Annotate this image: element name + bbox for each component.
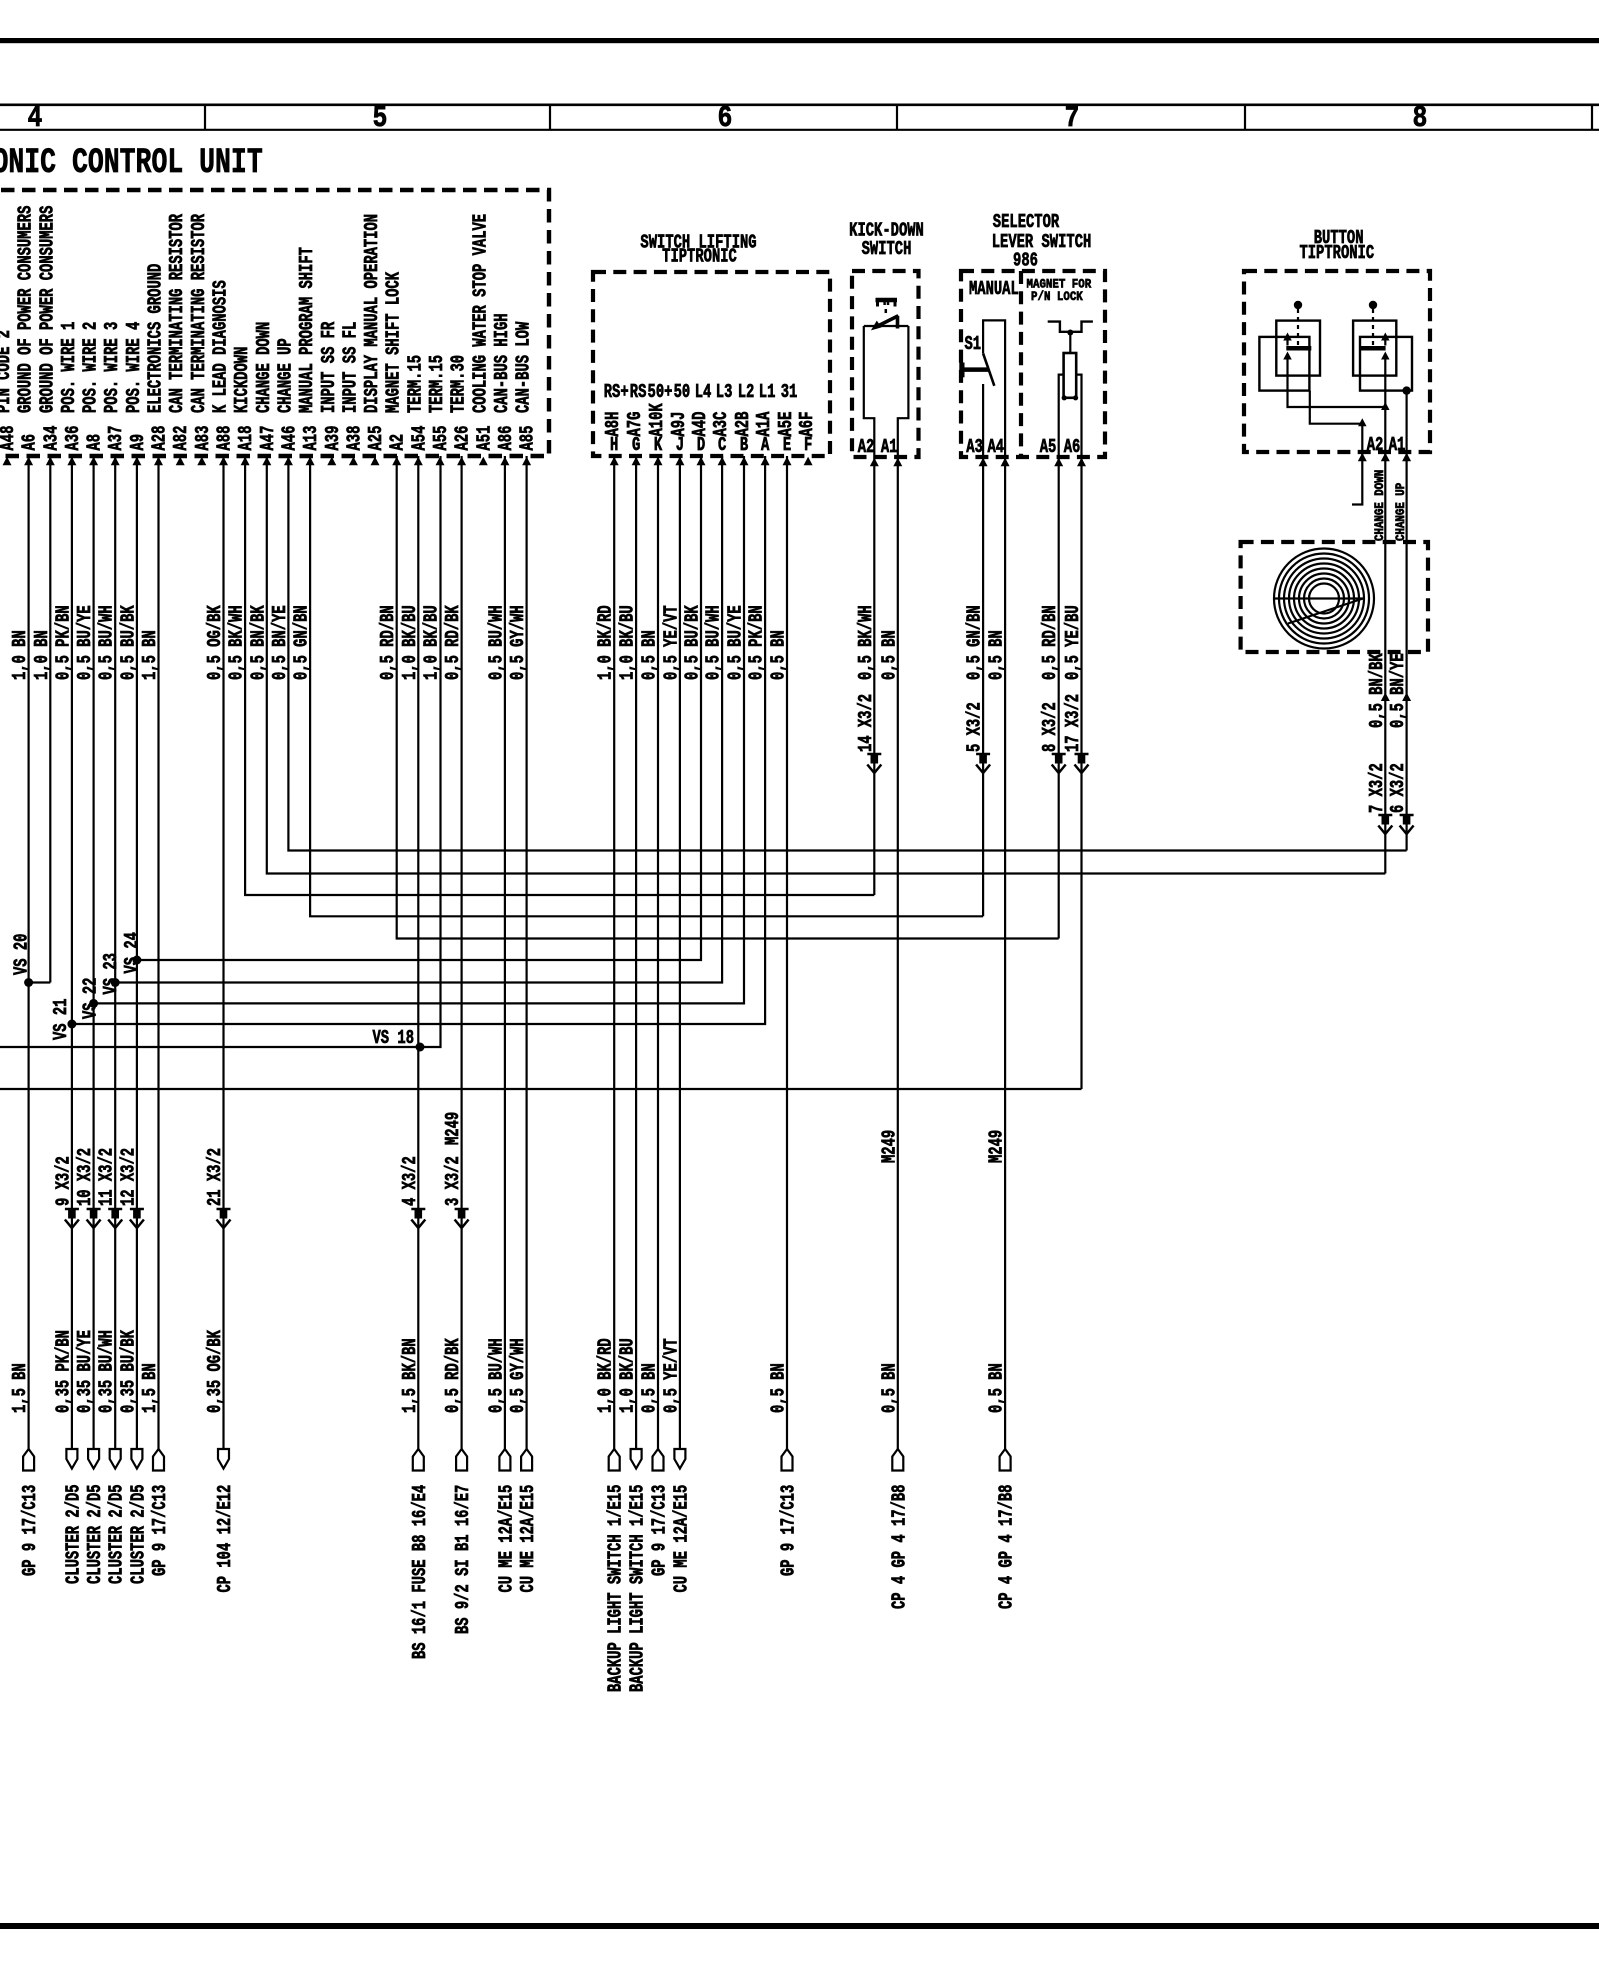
svg-text:VS 21: VS 21 bbox=[50, 998, 72, 1040]
svg-text:C: C bbox=[718, 434, 726, 456]
button S5 left button wire to A2 node bbox=[1288, 360, 1386, 408]
svg-text:L4: L4 bbox=[695, 381, 712, 403]
wire VS18 bus to left edge bbox=[0, 456, 441, 1047]
svg-text:8: 8 bbox=[1413, 102, 1428, 136]
svg-text:21 X3/2: 21 X3/2 bbox=[204, 1148, 226, 1206]
selector switch S1 wire to A3 bbox=[982, 384, 984, 457]
control unit pin A26 (TERM.30) bbox=[448, 355, 474, 465]
svg-text:3 X3/2: 3 X3/2 bbox=[442, 1156, 464, 1206]
svg-text:1,5 BN: 1,5 BN bbox=[9, 1363, 31, 1413]
svg-text:A51: A51 bbox=[473, 426, 495, 451]
control unit pin A9 (POS. WIRE 4) bbox=[123, 322, 149, 466]
svg-text:L2: L2 bbox=[738, 381, 755, 403]
svg-text:4: 4 bbox=[28, 102, 43, 136]
svg-text:A10K: A10K bbox=[646, 403, 668, 436]
svg-text:A2: A2 bbox=[1367, 434, 1384, 456]
svg-text:A25: A25 bbox=[365, 426, 387, 451]
svg-text:MANUAL: MANUAL bbox=[969, 278, 1019, 300]
wire SL G 1,0 BK/BU to backup light switch bbox=[635, 456, 637, 1449]
switch lifting pin G (A7G) bbox=[624, 381, 646, 465]
svg-text:CP 4 GP 4 17/B8: CP 4 GP 4 17/B8 bbox=[996, 1485, 1018, 1609]
svg-text:VS 24: VS 24 bbox=[121, 932, 143, 974]
node VS 22 bbox=[89, 999, 98, 1008]
svg-text:0,35 OG/BK: 0,35 OG/BK bbox=[204, 1330, 226, 1413]
svg-text:A6F: A6F bbox=[796, 412, 818, 437]
selector pin A5 bbox=[1054, 458, 1063, 467]
svg-text:A54: A54 bbox=[408, 426, 430, 451]
svg-text:A82: A82 bbox=[170, 426, 192, 451]
svg-text:BACKUP LIGHT SWITCH 1/E15: BACKUP LIGHT SWITCH 1/E15 bbox=[627, 1485, 649, 1692]
control unit pin A13 (MANUAL PROGRAM SHIFT) bbox=[296, 247, 322, 465]
wire SL J 0,5 YE/VT to CU ME bbox=[679, 456, 681, 1449]
svg-text:0,5 BN: 0,5 BN bbox=[986, 1363, 1008, 1413]
control unit pin A83 (CAN TERMINATING RESISTOR) bbox=[188, 214, 214, 465]
svg-text:RS: RS bbox=[630, 381, 647, 403]
wire A28 electronics ground 1,5 BN to GP 9 bbox=[157, 456, 159, 1449]
svg-text:A83: A83 bbox=[192, 426, 214, 451]
svg-text:50+: 50+ bbox=[648, 381, 673, 403]
svg-text:CAN-BUS HIGH: CAN-BUS HIGH bbox=[491, 313, 513, 413]
svg-text:986: 986 bbox=[1013, 249, 1038, 271]
svg-text:CLUSTER 2/D5: CLUSTER 2/D5 bbox=[62, 1484, 84, 1584]
svg-text:1,0 BK/BU: 1,0 BK/BU bbox=[617, 605, 639, 680]
svg-text:A39: A39 bbox=[322, 426, 344, 451]
svg-text:BACKUP LIGHT SWITCH 1/E15: BACKUP LIGHT SWITCH 1/E15 bbox=[605, 1485, 627, 1692]
wire A26 term 30 0,5 RD/BK to BS 9/2 bbox=[461, 456, 463, 1449]
svg-text:A2B: A2B bbox=[732, 412, 754, 437]
control unit pin A85 (CAN-BUS LOW) bbox=[513, 322, 539, 466]
svg-text:A34: A34 bbox=[40, 426, 62, 451]
switch lifting pin F (A6F) bbox=[796, 412, 818, 466]
svg-text:A9: A9 bbox=[127, 434, 149, 451]
control unit pin A37 (POS. WIRE 3) bbox=[101, 322, 127, 466]
svg-text:1,0 BK/BU: 1,0 BK/BU bbox=[617, 1338, 639, 1413]
svg-text:A7G: A7G bbox=[624, 412, 646, 437]
wire A13 manual program shift 0,5 GN/BN bus H4 bbox=[310, 456, 983, 916]
svg-text:VS 18: VS 18 bbox=[373, 1027, 415, 1049]
switch lifting pin C (A3C) bbox=[710, 381, 732, 465]
control unit pin A36 (POS. WIRE 1) bbox=[58, 322, 84, 466]
svg-text:INPUT SS FR: INPUT SS FR bbox=[318, 322, 340, 413]
svg-text:BS 9/2 SI B1 16/E7: BS 9/2 SI B1 16/E7 bbox=[452, 1485, 474, 1634]
svg-text:RS+: RS+ bbox=[604, 381, 629, 403]
button stub pin arrow bbox=[1358, 453, 1367, 462]
svg-text:5: 5 bbox=[373, 102, 388, 136]
svg-text:ELECTRONICS GROUND: ELECTRONICS GROUND bbox=[144, 264, 166, 413]
wire A8 0,5 BU/YE / 0,35 BU/YE to CLUSTER bbox=[92, 456, 94, 1449]
wire A86 CAN-BUS high 0,5 BU/WH to CU ME bbox=[504, 456, 506, 1449]
control unit pin A34 (GROUND OF POWER CONSUMERS) bbox=[36, 206, 62, 466]
svg-text:12 X3/2: 12 X3/2 bbox=[117, 1148, 139, 1206]
svg-text:0,35 PK/BN: 0,35 PK/BN bbox=[52, 1330, 74, 1413]
svg-text:0,5 BN/BK: 0,5 BN/BK bbox=[247, 605, 269, 680]
svg-text:0,5 BU/BK: 0,5 BU/BK bbox=[117, 605, 139, 680]
svg-text:A6: A6 bbox=[19, 434, 41, 451]
button pin A2 label bbox=[1381, 453, 1390, 462]
svg-text:A37: A37 bbox=[105, 426, 127, 451]
svg-text:GP 9 17/C13: GP 9 17/C13 bbox=[777, 1485, 799, 1576]
bus H9 A36 to switch lifting A bbox=[72, 456, 765, 1024]
control unit pin A8 (POS. WIRE 2) bbox=[80, 322, 106, 466]
wire A47 change down 0,5 BN/BK bus H2 bbox=[267, 456, 1386, 874]
kick-down switch contact bracket bbox=[876, 298, 898, 303]
svg-text:10 X3/2: 10 X3/2 bbox=[74, 1148, 96, 1206]
svg-text:0,5 YE/VT: 0,5 YE/VT bbox=[660, 1338, 682, 1413]
svg-text:GP 9 17/C13: GP 9 17/C13 bbox=[19, 1485, 41, 1576]
svg-text:1,0 BK/RD: 1,0 BK/RD bbox=[595, 605, 617, 680]
gong coil concentric rings bbox=[1274, 549, 1374, 649]
svg-text:5 X3/2: 5 X3/2 bbox=[964, 702, 986, 752]
svg-text:0,5 BN: 0,5 BN bbox=[878, 1363, 900, 1413]
svg-text:A36: A36 bbox=[62, 426, 84, 451]
control unit U1 dashed box bbox=[0, 190, 549, 456]
svg-text:A8H: A8H bbox=[602, 412, 624, 437]
svg-text:A1: A1 bbox=[881, 436, 898, 458]
selector pin A3 bbox=[979, 458, 988, 467]
node VS 23 bbox=[111, 978, 120, 987]
svg-text:0,5 BK/WH: 0,5 BK/WH bbox=[855, 605, 877, 680]
svg-text:31: 31 bbox=[781, 381, 798, 403]
button S5 left pushbutton outer square bbox=[1276, 321, 1320, 376]
control unit pin A48 (PIN CODE 2) bbox=[0, 330, 19, 465]
wire BT A2 change down 0,5 BN/BK through 7 X3/2 bbox=[1384, 452, 1386, 874]
svg-text:TERM.15: TERM.15 bbox=[404, 355, 426, 413]
svg-text:POS. WIRE 4: POS. WIRE 4 bbox=[123, 322, 145, 413]
selector switch S1 contact frame bbox=[983, 320, 1005, 457]
top border bar bbox=[0, 38, 1599, 43]
wire SE A3 0,5 GN/BN through 5 X3/2 bbox=[982, 457, 984, 916]
svg-text:GP 9 17/C13: GP 9 17/C13 bbox=[648, 1485, 670, 1576]
selector magnet tube wires to A5 A6 bbox=[1059, 375, 1064, 457]
control unit pin A18 (KICKDOWN) bbox=[231, 347, 257, 466]
button pin A1 label bbox=[1402, 453, 1411, 462]
svg-text:9 X3/2: 9 X3/2 bbox=[52, 1156, 74, 1206]
svg-text:TERM.30: TERM.30 bbox=[448, 355, 470, 413]
button S5 left pushbutton knob bbox=[1294, 301, 1302, 309]
svg-text:A: A bbox=[761, 434, 769, 456]
svg-text:TERM.15: TERM.15 bbox=[426, 355, 448, 413]
button S5 right contact arrows bbox=[1381, 333, 1390, 341]
svg-text:A46: A46 bbox=[278, 426, 300, 451]
switch lifting pin B (A2B) bbox=[732, 381, 754, 465]
svg-text:A3C: A3C bbox=[710, 412, 732, 437]
selector switch S1 common bar bbox=[961, 367, 989, 372]
svg-text:CU ME 12A/E15: CU ME 12A/E15 bbox=[495, 1485, 517, 1593]
svg-text:M249: M249 bbox=[986, 1130, 1008, 1163]
wire A88 K lead 0,5 OG/BK to CP 104 bbox=[222, 456, 224, 1449]
svg-text:SWITCH: SWITCH bbox=[862, 238, 912, 260]
node VS 18 bbox=[416, 1043, 425, 1052]
svg-text:GP 9 17/C13: GP 9 17/C13 bbox=[149, 1485, 171, 1576]
button S5 left contact arrows bbox=[1283, 333, 1292, 341]
svg-text:A48: A48 bbox=[0, 426, 19, 451]
svg-text:KICKDOWN: KICKDOWN bbox=[231, 347, 253, 413]
button S5 wire to pin A1 bbox=[1405, 391, 1407, 452]
wire A37 0,5 BU/WH / 0,35 BU/WH to CLUSTER bbox=[114, 456, 116, 1449]
svg-text:4 X3/2: 4 X3/2 bbox=[399, 1156, 421, 1206]
svg-text:A55: A55 bbox=[430, 426, 452, 451]
svg-text:A85: A85 bbox=[517, 426, 539, 451]
svg-text:S1: S1 bbox=[965, 333, 982, 355]
svg-text:1,0 BN: 1,0 BN bbox=[9, 630, 31, 680]
svg-text:A38: A38 bbox=[343, 426, 365, 451]
svg-text:POS. WIRE 3: POS. WIRE 3 bbox=[101, 322, 123, 413]
svg-text:A18: A18 bbox=[235, 426, 257, 451]
kick-down switch S3 dashed box bbox=[852, 271, 919, 457]
kick-down switch plunger outline bbox=[864, 326, 875, 457]
selector magnet for P/N lock bracket bbox=[1048, 322, 1093, 332]
svg-text:0,5 OG/BK: 0,5 OG/BK bbox=[204, 605, 226, 680]
svg-text:CHANGE UP: CHANGE UP bbox=[274, 338, 296, 413]
svg-text:0,5 BN: 0,5 BN bbox=[986, 630, 1008, 680]
control unit pin A88 (K LEAD DIAGNOSIS) bbox=[209, 280, 235, 465]
wire A9 0,5 BU/BK / 0,35 BU/BK to CLUSTER bbox=[136, 456, 138, 1449]
control unit pin A28 (ELECTRONICS GROUND) bbox=[144, 264, 170, 466]
svg-text:INPUT SS FL: INPUT SS FL bbox=[339, 322, 361, 413]
svg-text:0,5 BU/WH: 0,5 BU/WH bbox=[703, 605, 725, 680]
button S5 left square wire to stub bbox=[1310, 391, 1363, 424]
svg-text:MAGNET SHIFT LOCK: MAGNET SHIFT LOCK bbox=[383, 272, 405, 413]
switch lifting pin J (A9J) bbox=[668, 381, 690, 465]
selector pin A4 bbox=[1001, 458, 1010, 467]
svg-text:A86: A86 bbox=[495, 426, 517, 451]
svg-text:VS 23: VS 23 bbox=[100, 953, 122, 995]
wire SL H 1,0 BK/RD to backup light switch bbox=[613, 456, 615, 1449]
svg-text:0,5 GY/WH: 0,5 GY/WH bbox=[507, 1338, 529, 1413]
svg-text:M249: M249 bbox=[878, 1130, 900, 1163]
svg-text:0,5 BK/WH: 0,5 BK/WH bbox=[226, 605, 248, 680]
button S5 left pushbutton offset square bbox=[1259, 337, 1309, 391]
wire A6 ground 1,0 BN / 1,5 BN to GP 9 bbox=[28, 456, 30, 1449]
svg-text:L3: L3 bbox=[716, 381, 733, 403]
button S5 right contact bar bbox=[1360, 346, 1386, 351]
svg-text:CAN TERMINATING RESISTOR: CAN TERMINATING RESISTOR bbox=[166, 214, 188, 413]
svg-text:0,5 BN: 0,5 BN bbox=[767, 630, 789, 680]
button S5 junction on right square bbox=[1402, 386, 1410, 394]
selector magnet solenoid coil bbox=[1064, 353, 1077, 398]
control unit pin A82 (CAN TERMINATING RESISTOR) bbox=[166, 214, 192, 465]
svg-text:COOLING WATER STOP VALVE: COOLING WATER STOP VALVE bbox=[469, 214, 491, 413]
wire A2 magnet shift lock 0,5 RD/BN bus H5 bbox=[397, 456, 1059, 939]
gong diameter line bbox=[1274, 597, 1363, 599]
svg-text:1,5 BN: 1,5 BN bbox=[139, 630, 161, 680]
control unit pin A46 (CHANGE UP) bbox=[274, 338, 300, 465]
svg-text:CP 4 GP 4 17/B8: CP 4 GP 4 17/B8 bbox=[888, 1485, 910, 1609]
selector magnet stem bbox=[1069, 332, 1071, 354]
gong tiptronic dashed box bbox=[1241, 542, 1428, 652]
svg-text:VS 22: VS 22 bbox=[80, 978, 102, 1019]
selector switch internal divider bbox=[1019, 271, 1023, 457]
svg-text:CLUSTER 2/D5: CLUSTER 2/D5 bbox=[106, 1484, 128, 1584]
svg-text:0,5 BU/BK: 0,5 BU/BK bbox=[681, 605, 703, 680]
node VS 21 bbox=[67, 1020, 76, 1029]
svg-text:A2: A2 bbox=[387, 434, 409, 451]
wire BT stub below box bbox=[1352, 452, 1362, 505]
svg-text:A4D: A4D bbox=[689, 412, 711, 437]
switch lifting pin K (A10K) bbox=[646, 381, 672, 465]
svg-text:P/N LOCK: P/N LOCK bbox=[1031, 289, 1084, 304]
svg-text:A5E: A5E bbox=[775, 412, 797, 437]
svg-text:8 X3/2: 8 X3/2 bbox=[1039, 702, 1061, 752]
kick-down pin A1 bbox=[893, 458, 902, 467]
control unit pin A47 (CHANGE DOWN) bbox=[253, 322, 279, 466]
svg-text:A3: A3 bbox=[966, 436, 983, 458]
svg-text:A2: A2 bbox=[858, 436, 875, 458]
svg-text:CAN-BUS LOW: CAN-BUS LOW bbox=[513, 322, 535, 413]
svg-text:CP 104 12/E12: CP 104 12/E12 bbox=[214, 1485, 236, 1593]
svg-text:0,5 BN: 0,5 BN bbox=[878, 630, 900, 680]
wire A18 kickdown 0,5 BK/WH bus H3 bbox=[245, 456, 874, 895]
switch lifting tiptronic S2 dashed box bbox=[593, 272, 830, 456]
svg-text:0,5 RD/BN: 0,5 RD/BN bbox=[377, 605, 399, 680]
svg-text:CHANGE DOWN: CHANGE DOWN bbox=[253, 322, 275, 413]
svg-text:0,5 BN: 0,5 BN bbox=[767, 1363, 789, 1413]
svg-text:CU ME 12A/E15: CU ME 12A/E15 bbox=[670, 1485, 692, 1593]
svg-text:SELECTOR: SELECTOR bbox=[993, 211, 1059, 233]
svg-text:1,5 BN: 1,5 BN bbox=[139, 1363, 161, 1413]
svg-text:J: J bbox=[676, 434, 684, 456]
wire SE A6 0,5 YE/BU through 17 X3/2 bbox=[1080, 457, 1082, 1089]
svg-text:MANUAL PROGRAM SHIFT: MANUAL PROGRAM SHIFT bbox=[296, 247, 318, 413]
switch lifting pin A (A1A) bbox=[753, 381, 775, 465]
control unit pin A25 (DISPLAY MANUAL OPERATION) bbox=[361, 214, 387, 465]
svg-text:0,5 BU/YE: 0,5 BU/YE bbox=[74, 605, 96, 680]
wire SL E 0,5 BN to GP 9 bbox=[786, 456, 788, 1449]
svg-text:K: K bbox=[654, 434, 662, 456]
svg-text:0,5 YE/VT: 0,5 YE/VT bbox=[660, 605, 682, 680]
gong striker diagonal bbox=[1288, 599, 1363, 624]
control unit pin A38 (INPUT SS FL) bbox=[339, 322, 365, 466]
svg-text:B: B bbox=[740, 434, 748, 456]
svg-text:0,5 GN/BN: 0,5 GN/BN bbox=[291, 605, 313, 680]
svg-text:17 X3/2: 17 X3/2 bbox=[1062, 694, 1084, 752]
control unit pin A54 (TERM.15) bbox=[404, 355, 430, 465]
svg-text:GROUND OF POWER CONSUMERS: GROUND OF POWER CONSUMERS bbox=[36, 206, 58, 413]
svg-text:7 X3/2: 7 X3/2 bbox=[1366, 763, 1388, 813]
bus H6 A9 to switch lifting D bbox=[137, 456, 701, 960]
svg-text:GROUND OF POWER CONSUMERS: GROUND OF POWER CONSUMERS bbox=[15, 206, 37, 413]
svg-text:0,5 RD/BK: 0,5 RD/BK bbox=[442, 1338, 464, 1413]
node VS 24 bbox=[132, 956, 141, 965]
svg-text:A1A: A1A bbox=[753, 412, 775, 437]
svg-text:POS. WIRE 1: POS. WIRE 1 bbox=[58, 322, 80, 413]
svg-text:CAN TERMINATING RESISTOR: CAN TERMINATING RESISTOR bbox=[188, 214, 210, 413]
button S5 right button wire to pin A2 bbox=[1384, 360, 1386, 453]
control unit pin A51 (COOLING WATER STOP VALVE) bbox=[469, 214, 495, 465]
svg-text:7: 7 bbox=[1065, 102, 1080, 136]
svg-text:1,0 BN: 1,0 BN bbox=[31, 630, 53, 680]
svg-text:1,0 BK/BU: 1,0 BK/BU bbox=[420, 605, 442, 680]
svg-text:M249: M249 bbox=[442, 1112, 464, 1145]
selector switch S1 arm bbox=[983, 353, 994, 385]
svg-text:A6: A6 bbox=[1064, 436, 1081, 458]
svg-text:0,5 RD/BK: 0,5 RD/BK bbox=[442, 605, 464, 680]
node VS 20 bbox=[24, 978, 33, 987]
switch lifting pin H (A8H) bbox=[602, 381, 628, 465]
switch lifting pin E (A5E) bbox=[775, 381, 797, 465]
button S5 right pushbutton knob bbox=[1369, 301, 1377, 309]
svg-text:11 X3/2: 11 X3/2 bbox=[96, 1148, 118, 1206]
svg-text:0,5 BN: 0,5 BN bbox=[638, 1363, 660, 1413]
bottom border bar bbox=[0, 1923, 1599, 1929]
wire A54 term 15 1,0 BK/BU through VS 18 to fuse bbox=[417, 456, 419, 1449]
wire A34 ground 1,0 BN to VS 20 bbox=[49, 456, 51, 983]
svg-text:A28: A28 bbox=[148, 426, 170, 451]
svg-text:DISPLAY MANUAL OPERATION: DISPLAY MANUAL OPERATION bbox=[361, 214, 383, 413]
svg-text:A8: A8 bbox=[84, 434, 106, 451]
wire SE A4 0,5 BN to CP 4 GP 4 bbox=[1004, 457, 1006, 1449]
svg-text:0,5 YE/BU: 0,5 YE/BU bbox=[1062, 605, 1084, 680]
wire VS20 link bbox=[29, 981, 51, 983]
svg-text:0,5 BN/BK: 0,5 BN/BK bbox=[1366, 653, 1388, 728]
switch lifting pin D (A4D) bbox=[689, 381, 711, 465]
kick-down switch fixed contact bbox=[896, 316, 900, 329]
svg-text:K LEAD DIAGNOSIS: K LEAD DIAGNOSIS bbox=[209, 280, 231, 413]
wire BT A1 change up 0,5 BN/YE through 6 X3/2 bbox=[1405, 452, 1407, 851]
svg-text:0,35 BU/BK: 0,35 BU/BK bbox=[117, 1330, 139, 1413]
bus H8 A8 to switch lifting B bbox=[94, 456, 744, 1003]
svg-text:CLUSTER 2/D5: CLUSTER 2/D5 bbox=[127, 1484, 149, 1584]
selector pin A6 bbox=[1077, 458, 1086, 467]
svg-text:E: E bbox=[783, 434, 791, 456]
selector lever switch S4 dashed box bbox=[961, 271, 1105, 457]
svg-text:L1: L1 bbox=[759, 381, 776, 403]
button S5 right pushbutton offset square bbox=[1360, 337, 1412, 391]
kick-down switch actuator dashed stem bbox=[885, 309, 888, 317]
kick-down pin A2 bbox=[870, 458, 879, 467]
svg-text:F: F bbox=[804, 434, 812, 456]
svg-text:CLUSTER 2/D5: CLUSTER 2/D5 bbox=[84, 1484, 106, 1584]
svg-text:CHANGE UP: CHANGE UP bbox=[1393, 483, 1408, 541]
bus H7 A37 to switch lifting C bbox=[115, 456, 722, 983]
svg-text:PIN CODE 2: PIN CODE 2 bbox=[0, 330, 15, 413]
control unit pin A39 (INPUT SS FR) bbox=[318, 322, 344, 466]
svg-text:POS. WIRE 2: POS. WIRE 2 bbox=[80, 322, 102, 413]
svg-text:LEVER SWITCH: LEVER SWITCH bbox=[992, 231, 1092, 253]
svg-text:0,5 BU/WH: 0,5 BU/WH bbox=[96, 605, 118, 680]
svg-text:CU ME 12A/E15: CU ME 12A/E15 bbox=[517, 1485, 539, 1593]
svg-text:G: G bbox=[632, 434, 640, 456]
svg-text:0,35 BU/YE: 0,35 BU/YE bbox=[74, 1330, 96, 1413]
control unit pin A6 (GROUND OF POWER CONSUMERS) bbox=[15, 206, 41, 466]
svg-text:1,5 BK/BN: 1,5 BK/BN bbox=[399, 1338, 421, 1413]
wire A36 0,5 PK/BN / 0,35 PK/BN to CLUSTER bbox=[71, 456, 73, 1449]
svg-text:1,0 BK/RD: 1,0 BK/RD bbox=[595, 1338, 617, 1413]
svg-text:A9J: A9J bbox=[668, 412, 690, 437]
svg-text:A88: A88 bbox=[213, 426, 235, 451]
svg-text:H: H bbox=[610, 434, 618, 456]
header band bbox=[0, 104, 1599, 107]
svg-text:50: 50 bbox=[674, 381, 691, 403]
svg-text:A1: A1 bbox=[1389, 434, 1406, 456]
svg-text:0,5 BU/WH: 0,5 BU/WH bbox=[485, 1338, 507, 1413]
svg-text:6: 6 bbox=[718, 102, 733, 136]
wire SL K 0,5 BN to GP 9 bbox=[657, 456, 659, 1449]
svg-text:0,5 RD/BN: 0,5 RD/BN bbox=[1039, 605, 1061, 680]
svg-text:0,5 BU/YE: 0,5 BU/YE bbox=[724, 605, 746, 680]
svg-text:0,5 BN/YE: 0,5 BN/YE bbox=[269, 605, 291, 680]
bus H11 selector A6 0,5 YE/BU to left edge bbox=[0, 1088, 1082, 1090]
svg-text:CHANGE DOWN: CHANGE DOWN bbox=[1372, 470, 1387, 541]
svg-text:0,5 BN/YE: 0,5 BN/YE bbox=[1387, 653, 1409, 728]
button S5 left contact bar bbox=[1286, 346, 1311, 351]
svg-text:A5: A5 bbox=[1040, 436, 1057, 458]
svg-text:0,5 PK/BN: 0,5 PK/BN bbox=[52, 605, 74, 680]
svg-text:1,0 BK/BU: 1,0 BK/BU bbox=[399, 605, 421, 680]
wire A85 CAN-BUS low 0,5 GY/WH to CU ME bbox=[525, 456, 527, 1449]
svg-text:A13: A13 bbox=[300, 426, 322, 451]
svg-text:TIPTRONIC: TIPTRONIC bbox=[662, 245, 737, 267]
